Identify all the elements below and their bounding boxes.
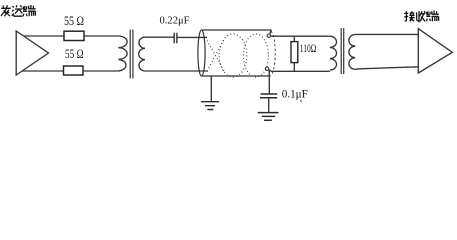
- wire: R1 to T1 primary top: [84, 35, 118, 37]
- resistor R3 110ohm (vertical box): [291, 42, 298, 63]
- char FA: [1, 5, 11, 16]
- choke winding turn 2 (dotted): [219, 34, 247, 77]
- choke winding crossover (dotted X): [207, 40, 225, 72]
- wire: choke bottom exit to T2: [269, 70, 330, 72]
- wire: C1 to choke entry (top): [177, 36, 207, 38]
- lead: bottom node down to C2: [268, 70, 270, 93]
- wire: choke top exit to R3/T2: [270, 35, 329, 37]
- choke bottom exit terminal (small circle): [265, 67, 268, 70]
- common-mode choke L1: cylinder left end face: [198, 30, 205, 76]
- choke cylinder hidden right end (dashed arc): [270, 31, 275, 76]
- resistor R2 55ohm (bottom box): [64, 66, 84, 75]
- label fa-song-duan (sender) hand-drawn glyphs: [1, 5, 36, 16]
- transformer T1 primary winding: [118, 36, 127, 71]
- transformer T2 core lines: [341, 28, 344, 74]
- capacitor C1 0.22uF plates: [174, 33, 177, 44]
- svg-text:0.1μF: 0.1μF: [282, 89, 308, 101]
- wire: T1 secondary top to C1: [145, 36, 174, 38]
- ground symbol B: [258, 113, 279, 121]
- choke winding turn 3 (dotted): [244, 34, 269, 77]
- char SHOU: [416, 11, 425, 21]
- transformer T1 core lines: [130, 30, 133, 79]
- receiver triangle U2: [418, 29, 452, 73]
- svg-text:110Ω: 110Ω: [300, 41, 317, 55]
- ground lead from choke body: [210, 76, 212, 101]
- choke top-right corner slant: [270, 30, 271, 34]
- label jie-shou-duan (receiver) hand-drawn glyphs: [404, 10, 439, 21]
- choke cylinder top edge: [202, 29, 271, 31]
- scan speck: [300, 100, 302, 102]
- svg-text:55 Ω: 55 Ω: [64, 14, 84, 28]
- lead: C2 to ground B: [268, 98, 270, 113]
- resistor R3 lead bottom: [293, 63, 295, 72]
- wire: T1 secondary bottom to choke entry: [145, 70, 208, 72]
- transformer T2 secondary winding: [349, 35, 355, 70]
- char SONG: [12, 5, 23, 16]
- svg-text:0.22μF: 0.22μF: [160, 15, 190, 27]
- choke cylinder bottom edge: [202, 75, 271, 77]
- driver triangle U1 (sender): [16, 31, 48, 75]
- svg-text:55 Ω: 55 Ω: [65, 47, 84, 61]
- wire: driver bottom output to R2: [22, 70, 63, 72]
- wire: R2 to T1 primary bottom: [83, 70, 118, 72]
- choke top exit terminal (small circle): [267, 34, 270, 37]
- ground symbol A: [201, 102, 219, 110]
- transformer T2 primary winding: [330, 36, 337, 70]
- resistor R3 110ohm lead top: [293, 36, 295, 41]
- wire: T2 secondary bottom to receiver: [355, 67, 418, 70]
- capacitor C2 0.1uF plates: [260, 94, 277, 98]
- char DUAN1: [23, 5, 36, 16]
- wire: T2 secondary top to receiver: [355, 33, 418, 35]
- char DUAN2: [426, 10, 438, 21]
- resistor R1 55ohm (top box): [64, 31, 84, 40]
- transformer T1 secondary winding: [139, 37, 145, 71]
- char JIE: [404, 11, 415, 21]
- wire: driver top output to R1: [24, 35, 65, 37]
